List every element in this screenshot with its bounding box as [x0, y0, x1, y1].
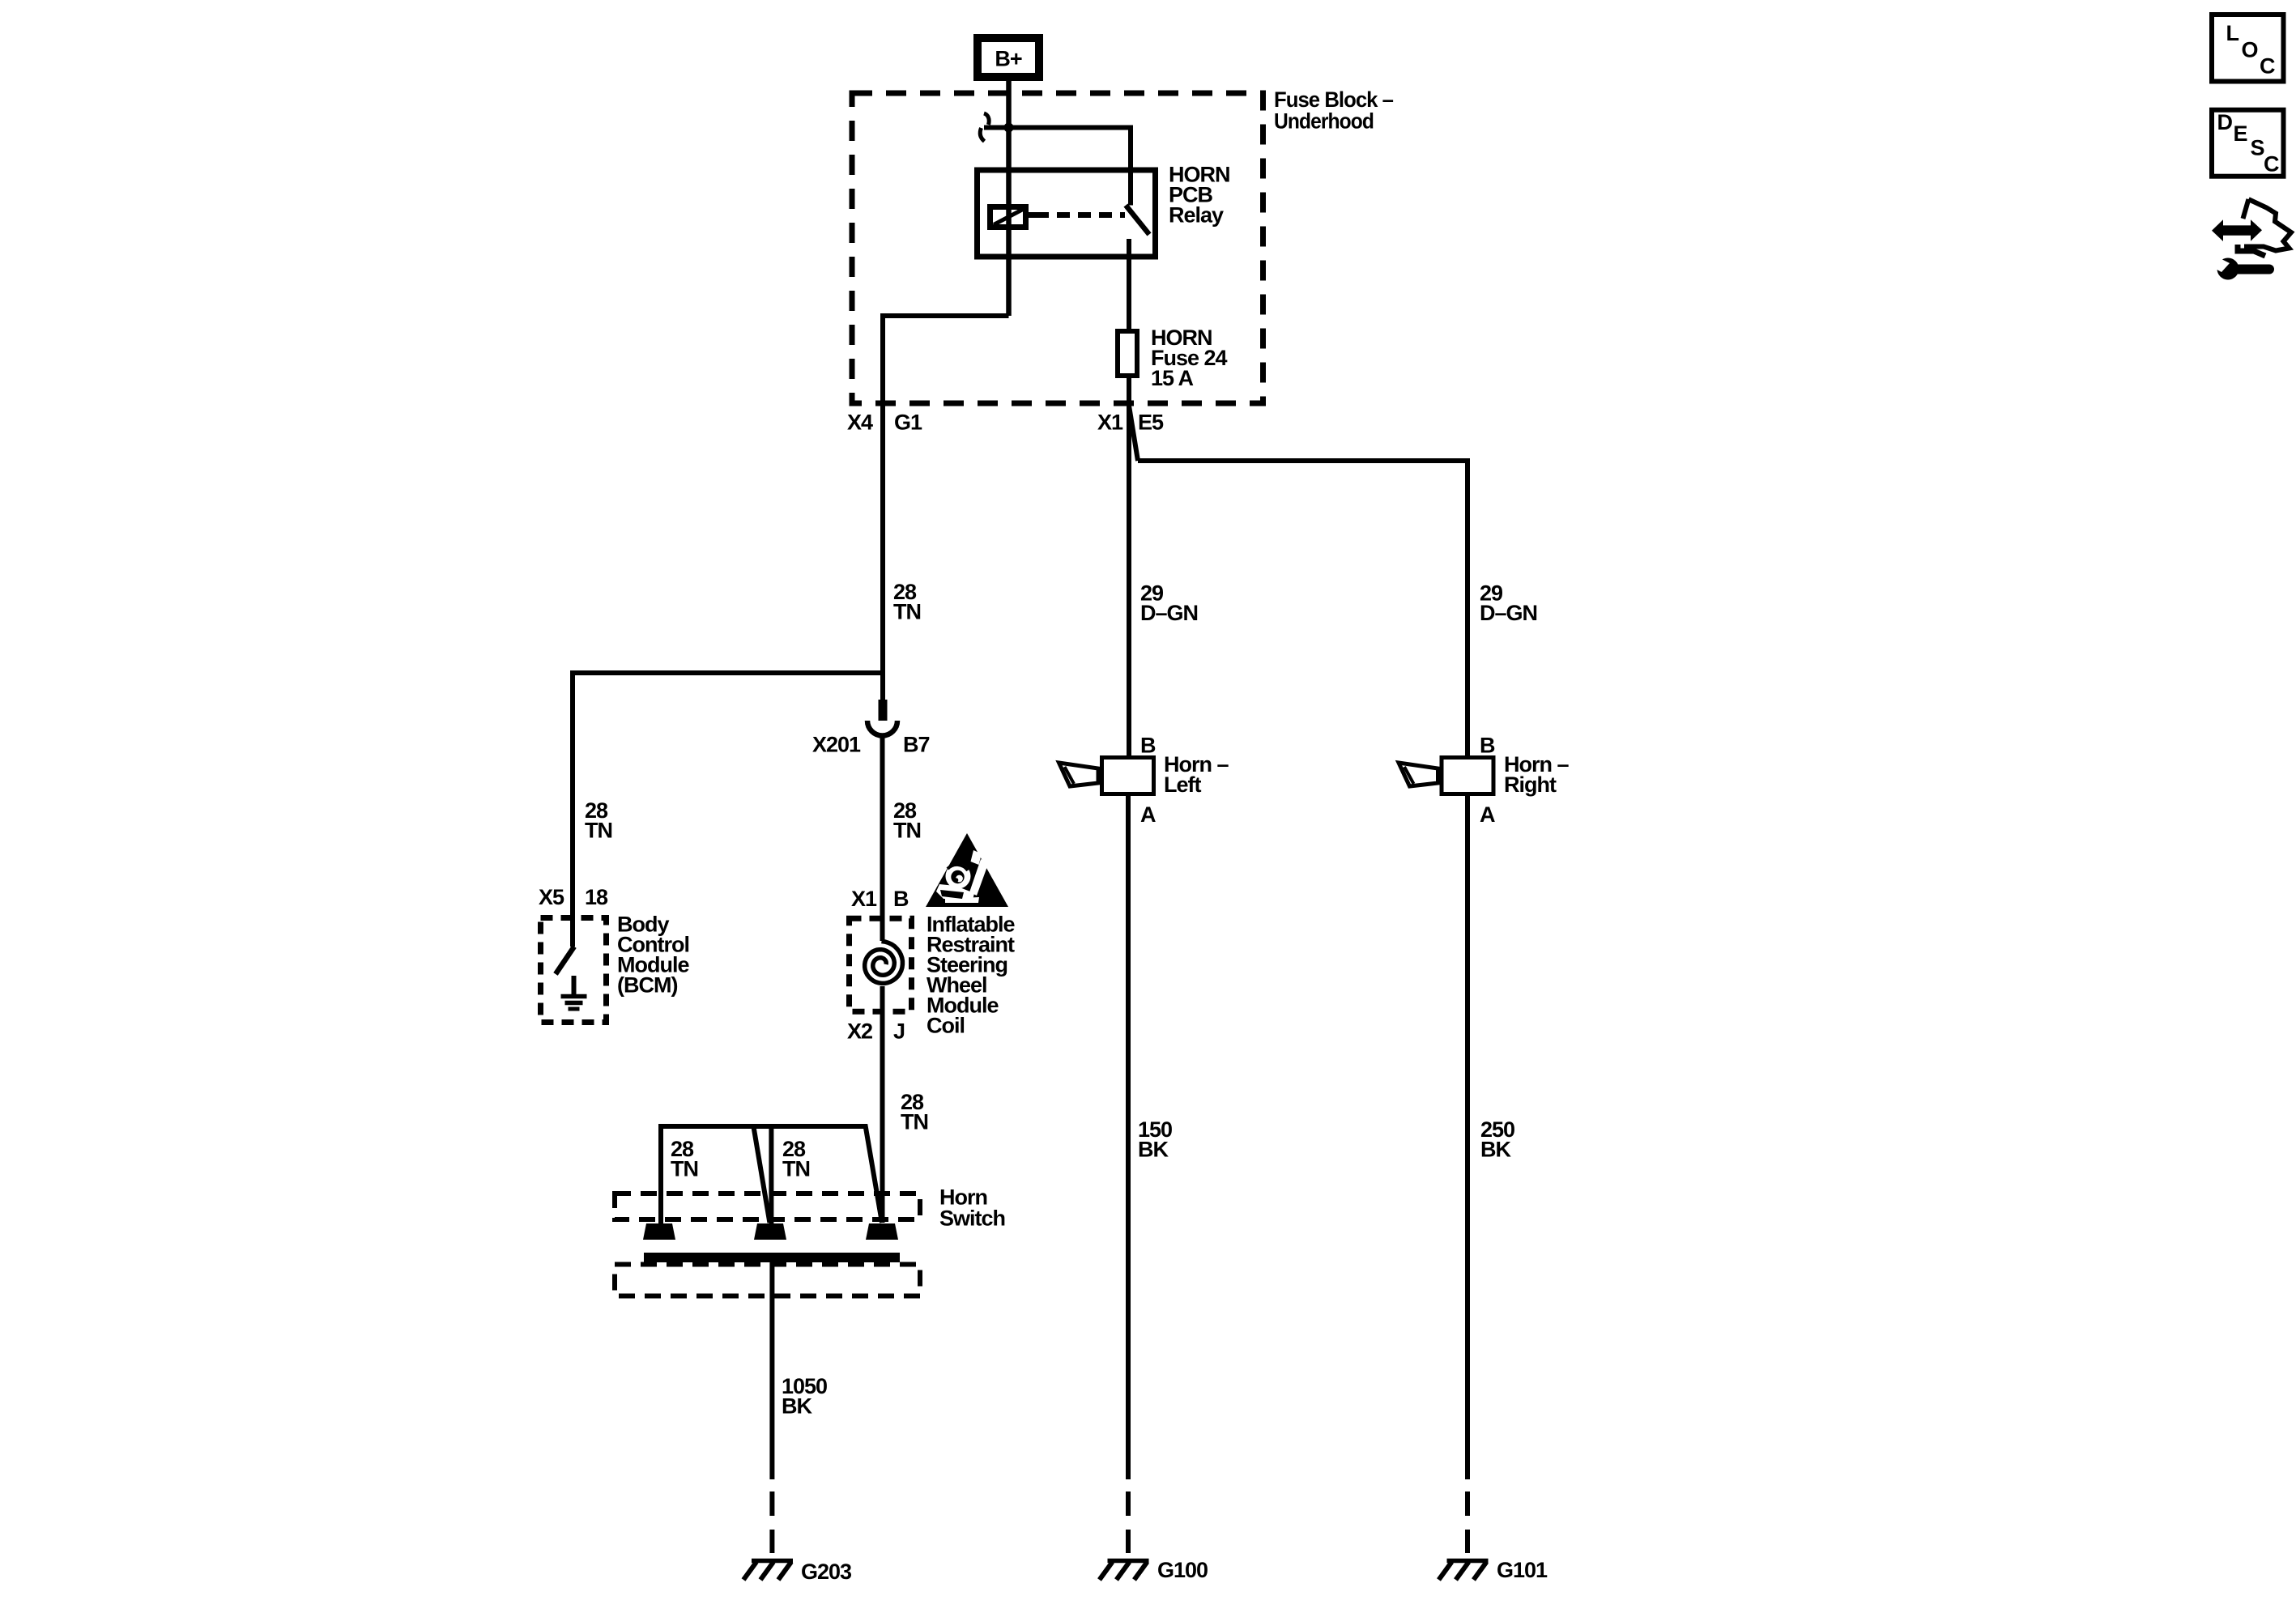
svg-text:E5: E5 [1138, 411, 1164, 435]
B+ battery positive node [978, 38, 1039, 77]
svg-text:C: C [2260, 54, 2275, 79]
svg-text:G101: G101 [1497, 1558, 1548, 1582]
svg-text:G1: G1 [894, 411, 922, 435]
svg-text:G203: G203 [801, 1560, 852, 1584]
connector X201 female cup [867, 721, 897, 736]
svg-text:X5: X5 [539, 885, 564, 909]
svg-text:X1: X1 [851, 887, 877, 911]
svg-text:L: L [2226, 21, 2239, 45]
horn switch dashed housing upper [615, 1194, 920, 1219]
svg-text:BK: BK [1480, 1138, 1511, 1162]
wire horn switch to G203 [769, 1262, 774, 1479]
svg-text:X2: X2 [847, 1019, 872, 1044]
relay coil-switch dashed link [1025, 212, 1036, 218]
horn right speaker icon [1399, 763, 1438, 786]
relay U: HORN PCB Relay box [978, 170, 1156, 257]
svg-text:TN: TN [585, 819, 612, 843]
svg-text:S: S [2251, 136, 2264, 160]
ground G203 [752, 1559, 793, 1564]
svg-text:(BCM): (BCM) [617, 973, 677, 998]
svg-text:Relay: Relay [1169, 203, 1224, 228]
wire branch to BCM [573, 673, 883, 947]
svg-text:Left: Left [1164, 772, 1202, 797]
svg-text:TN: TN [671, 1157, 698, 1181]
relay coil [990, 207, 1026, 228]
svg-text:B: B [1480, 734, 1495, 758]
horn left connector box [1102, 758, 1154, 794]
DESC legend box [2212, 110, 2284, 177]
svg-text:B: B [893, 887, 909, 911]
wire left horn to G100 [1126, 796, 1131, 1479]
repair icon double arrow [2212, 219, 2262, 241]
horn right connector box [1442, 758, 1493, 794]
wire branch to right horn [1138, 461, 1467, 755]
svg-text:B+: B+ [995, 47, 1021, 71]
relay switch arm [1126, 206, 1149, 235]
wire SIR coil to horn switch [880, 986, 885, 1223]
svg-text:BK: BK [1138, 1138, 1169, 1162]
module BCM dashed box [541, 918, 607, 1023]
BCM internal switch [556, 947, 574, 974]
svg-text:G100: G100 [1157, 1558, 1208, 1582]
svg-text:Right: Right [1504, 772, 1557, 797]
svg-text:A: A [1140, 802, 1156, 827]
svg-text:TN: TN [901, 1110, 928, 1134]
wire fuse to E5 terminal [1127, 376, 1131, 755]
clockspring spiral coil [865, 942, 903, 984]
module SIR steering wheel coil dashed box [850, 918, 912, 1011]
wire X201 to SIR coil [880, 734, 885, 941]
node junction at B+ feed [1004, 123, 1014, 133]
repair icon wrench [2217, 258, 2239, 280]
LOC legend box [2212, 15, 2284, 82]
BCM internal ground [572, 976, 577, 995]
wire B+ to relay coil (through fuse block) [1006, 81, 1012, 316]
svg-text:Fuse Block –: Fuse Block – [1274, 87, 1394, 112]
horn switch dashed housing lower [615, 1265, 920, 1296]
ground G100 [1108, 1559, 1149, 1564]
svg-text:TN: TN [782, 1157, 810, 1181]
wire relay coil to G1 terminal [883, 316, 1009, 675]
wire relay switch to fuse [1127, 239, 1131, 331]
svg-text:Underhood: Underhood [1274, 109, 1374, 134]
wire right horn to G101 [1465, 796, 1470, 1479]
svg-text:D–GN: D–GN [1480, 601, 1537, 625]
svg-text:BK: BK [782, 1394, 812, 1419]
svg-text:D–GN: D–GN [1140, 601, 1198, 625]
svg-text:X1: X1 [1097, 411, 1123, 435]
svg-text:TN: TN [893, 819, 921, 843]
horn switch contact branch 3 [771, 1126, 882, 1223]
svg-text:X4: X4 [847, 411, 873, 435]
svg-text:A: A [1480, 802, 1495, 827]
svg-text:Switch: Switch [939, 1206, 1005, 1231]
fuse block - underhood dashed box [852, 93, 1263, 403]
horn switch common bar [644, 1253, 900, 1262]
repair icon part outline [2243, 199, 2249, 219]
svg-text:18: 18 [585, 885, 608, 909]
horn switch contact branch 2 [661, 1126, 771, 1229]
wire junction to relay switch contact [984, 128, 1131, 206]
fuse F: HORN Fuse 24 15A [1118, 331, 1137, 376]
connector X201 male pin [880, 673, 885, 701]
svg-text:D: D [2217, 110, 2233, 134]
svg-text:J: J [893, 1019, 905, 1044]
svg-text:C: C [2264, 152, 2279, 177]
horn switch diagonal branch 2 [753, 1126, 769, 1223]
svg-text:E: E [2234, 121, 2247, 146]
svg-text:Coil: Coil [926, 1014, 965, 1038]
SIR caution triangle icon [926, 833, 1008, 907]
svg-text:B7: B7 [903, 733, 930, 757]
svg-text:TN: TN [893, 600, 921, 624]
wire E5 branch diagonal [1129, 406, 1138, 461]
svg-text:X201: X201 [812, 733, 861, 757]
horn left speaker icon [1059, 763, 1099, 786]
svg-text:B: B [1140, 734, 1156, 758]
svg-text:15 A: 15 A [1151, 366, 1194, 390]
svg-text:O: O [2242, 38, 2258, 62]
horn switch contact pads [643, 1223, 900, 1262]
ground G101 [1447, 1559, 1489, 1564]
fusible-link hook symbol [984, 113, 989, 125]
